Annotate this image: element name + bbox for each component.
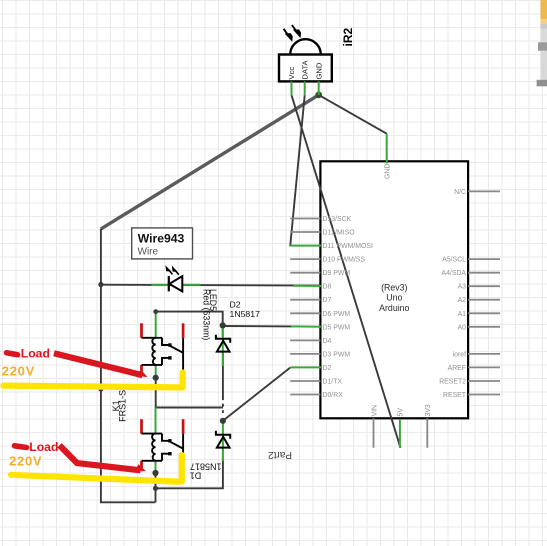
svg-text:Load: Load bbox=[29, 440, 58, 454]
svg-text:A1: A1 bbox=[458, 311, 467, 318]
svg-text:D1/TX: D1/TX bbox=[323, 379, 343, 386]
wire: D5 PWM green row bbox=[223, 325, 293, 327]
wire: LED row horizontal to D8 bbox=[101, 284, 321, 287]
Arduino U1 body bbox=[320, 161, 468, 418]
svg-text:AREF: AREF bbox=[448, 365, 466, 372]
wire: D2 diode vertical run bbox=[222, 325, 224, 397]
node: D1 bottom row junction bbox=[153, 486, 158, 491]
svg-text:RESET2: RESET2 bbox=[439, 379, 466, 386]
svg-text:Part2: Part2 bbox=[268, 449, 292, 460]
green segments diode D2 bbox=[222, 327, 224, 367]
svg-text:D10 PWM/SS: D10 PWM/SS bbox=[323, 257, 366, 264]
annotation red Load 1 bbox=[7, 353, 18, 355]
annotation yellow 220V line 1 bbox=[4, 373, 183, 388]
svg-text:DATA: DATA bbox=[301, 59, 310, 79]
Arduino pin lines right bbox=[468, 191, 500, 394]
wire: IR Vcc to Arduino 5V long diagonal bbox=[292, 95, 401, 448]
Arduino center label bbox=[379, 282, 409, 312]
label D2 bbox=[230, 300, 261, 320]
green segments LED wire bbox=[152, 285, 323, 286]
wire: relay2 coil vertical down to bottom loop bbox=[155, 471, 157, 503]
svg-text:Arduino: Arduino bbox=[379, 303, 409, 313]
svg-text:D7: D7 bbox=[323, 297, 332, 304]
green segments diode D1 bbox=[222, 423, 224, 461]
svg-text:Uno: Uno bbox=[386, 293, 402, 303]
LED LED5 bbox=[166, 266, 182, 291]
svg-text:D12/MISO: D12/MISO bbox=[323, 230, 356, 237]
svg-text:iR2: iR2 bbox=[341, 28, 355, 47]
Arduino pin labels right bbox=[439, 189, 467, 399]
svg-text:D5 PWM: D5 PWM bbox=[323, 324, 351, 331]
Arduino pin lines left bbox=[290, 219, 320, 395]
svg-text:D9 PWM: D9 PWM bbox=[323, 270, 351, 277]
svg-text:A0: A0 bbox=[458, 324, 467, 331]
green connected pins left: D11, D2 bbox=[290, 246, 322, 368]
node: relay K2 coil bottom junction bbox=[152, 470, 158, 476]
svg-text:5V: 5V bbox=[398, 408, 405, 417]
node: left rail bendpoint bbox=[98, 386, 103, 391]
svg-text:A4/SDA: A4/SDA bbox=[441, 270, 466, 277]
svg-text:GND: GND bbox=[385, 164, 392, 179]
Arduino bottom pin stubs bbox=[374, 418, 428, 448]
svg-text:D13/SCK: D13/SCK bbox=[323, 216, 352, 223]
svg-text:(Rev3): (Rev3) bbox=[381, 282, 407, 292]
svg-text:D2: D2 bbox=[230, 300, 241, 310]
node: diode D2 top junction bbox=[220, 322, 226, 328]
svg-text:Red (633nm): Red (633nm) bbox=[201, 289, 211, 340]
annotation red Load 2 bbox=[15, 446, 27, 448]
svg-text:220V: 220V bbox=[9, 454, 42, 469]
svg-text:VIN: VIN bbox=[371, 405, 378, 417]
svg-text:220V: 220V bbox=[2, 364, 35, 379]
node: diode D1 top junction bbox=[220, 418, 226, 424]
5V pin green stub bbox=[399, 419, 401, 448]
label LED5 / Red (633nm) bbox=[201, 289, 218, 340]
svg-text:GND: GND bbox=[315, 62, 324, 79]
wire: relay1 coil vertical bbox=[155, 375, 157, 408]
relay K2 (lower) bbox=[142, 419, 184, 473]
svg-text:D0/RX: D0/RX bbox=[323, 392, 344, 399]
label D1 (rotated 180) bbox=[190, 462, 222, 481]
wire: left tall vertical bbox=[101, 229, 155, 502]
wire: Arduino GND green vertical bbox=[386, 134, 388, 164]
svg-text:Load: Load bbox=[21, 347, 50, 361]
IR pin stubs (green) bbox=[292, 81, 319, 95]
svg-text:D11 PWM/MOSI: D11 PWM/MOSI bbox=[323, 243, 373, 250]
node: relay K1 coil bottom junction bbox=[153, 375, 159, 381]
tooltip Wire943 bbox=[132, 228, 193, 259]
svg-text:D4: D4 bbox=[323, 338, 332, 345]
IR receiver iR2 bbox=[279, 25, 332, 81]
wire: GND junction to left corner (Wire943, thick) bbox=[101, 95, 319, 229]
wire: relay2 top rail bbox=[156, 407, 223, 409]
svg-text:FRS1-S: FRS1-S bbox=[118, 390, 128, 422]
wire: IR DATA to Arduino D11 bbox=[290, 95, 305, 246]
svg-text:Wire943: Wire943 bbox=[138, 231, 185, 245]
relay K1 (upper) bbox=[142, 323, 184, 377]
svg-text:A2: A2 bbox=[458, 297, 467, 304]
wire: IR GND to Arduino GND diagonal bbox=[319, 95, 387, 134]
wire: D1 bottom row bbox=[156, 459, 223, 488]
svg-text:A3: A3 bbox=[458, 284, 467, 291]
node: LED wire / left rail junction bbox=[98, 282, 103, 287]
wire: relay1 top rail bbox=[156, 312, 223, 326]
node: IR GND junction bbox=[315, 92, 322, 99]
Arduino pin labels left bbox=[323, 216, 373, 399]
label K1 / FRS1-S bbox=[111, 390, 128, 422]
svg-text:1N5817: 1N5817 bbox=[230, 309, 261, 319]
svg-text:D1: D1 bbox=[190, 471, 202, 481]
svg-text:3V3: 3V3 bbox=[425, 404, 432, 416]
svg-text:D6 PWM: D6 PWM bbox=[323, 311, 351, 318]
annotation yellow 220V line 2 bbox=[11, 455, 182, 482]
node: relay K1 rail corner bbox=[153, 309, 158, 314]
svg-text:D3 PWM: D3 PWM bbox=[323, 351, 351, 358]
svg-text:Wire: Wire bbox=[138, 247, 159, 258]
svg-text:N/C: N/C bbox=[454, 189, 466, 196]
right edge UI strip bbox=[537, 0, 547, 86]
svg-text:RESET: RESET bbox=[443, 392, 467, 399]
svg-text:ioref: ioref bbox=[453, 351, 466, 358]
svg-text:Vcc: Vcc bbox=[287, 67, 296, 80]
diode D2 1N5817 bbox=[216, 335, 230, 352]
diode D1 1N5817 bbox=[216, 431, 230, 448]
svg-text:D8: D8 bbox=[323, 284, 332, 291]
svg-text:1N5817: 1N5817 bbox=[190, 462, 222, 472]
svg-text:A5/SCL: A5/SCL bbox=[442, 257, 466, 264]
svg-text:D2: D2 bbox=[323, 365, 332, 372]
wire: Arduino D2 to D1 junction diagonal bbox=[223, 368, 290, 421]
